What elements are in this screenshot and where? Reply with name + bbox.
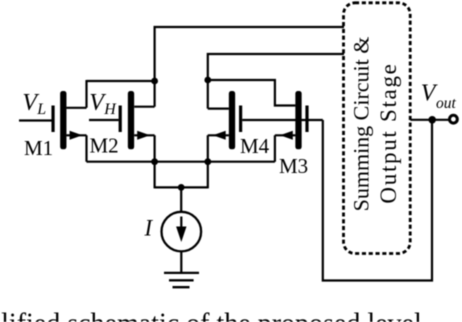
svg-text:out: out	[436, 95, 457, 112]
svg-text:I: I	[144, 215, 154, 240]
svg-text:H: H	[103, 101, 117, 118]
svg-text:Summing Circuit &: Summing Circuit &	[349, 37, 374, 212]
svg-text:M2: M2	[90, 133, 119, 157]
svg-text:M1: M1	[24, 136, 53, 160]
svg-text:Output Stage: Output Stage	[376, 62, 401, 203]
svg-text:M3: M3	[279, 154, 308, 178]
svg-text:M4: M4	[240, 134, 270, 158]
svg-text:L: L	[36, 101, 46, 118]
svg-text:Simplified schematic of the pr: Simplified schematic of the proposed lev…	[0, 308, 422, 322]
